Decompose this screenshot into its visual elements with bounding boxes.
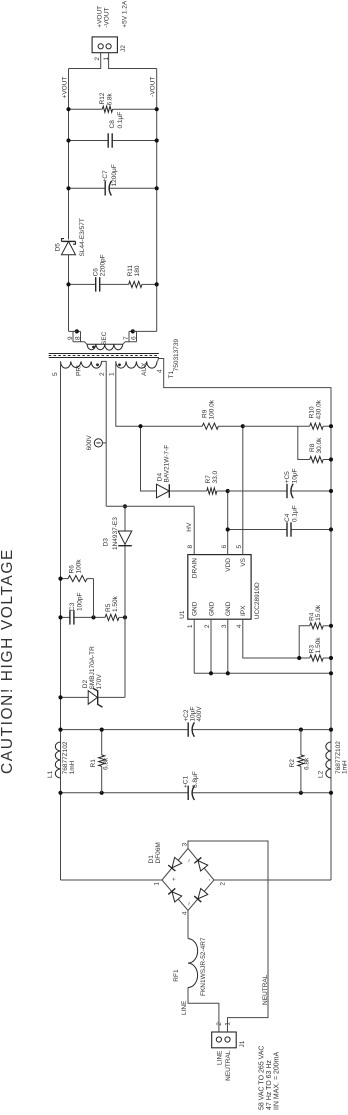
junction dot VS node bbox=[241, 424, 245, 428]
svg-text:LINE: LINE bbox=[216, 1050, 223, 1065]
svg-text:+VOUT: +VOUT bbox=[61, 77, 68, 99]
junction dot aux node bbox=[138, 424, 142, 428]
resistor R6 bbox=[61, 578, 69, 580]
resistor R2 parallel path bbox=[300, 766, 302, 792]
junction dot R10 bottom bbox=[329, 424, 333, 428]
svg-text:400V: 400V bbox=[196, 706, 203, 722]
wire sec 7/6 to -VOUT rail bbox=[133, 330, 157, 332]
connector J2 bbox=[92, 37, 117, 53]
svg-text:-VOUT: -VOUT bbox=[150, 77, 157, 97]
svg-text:L2: L2 bbox=[317, 770, 324, 778]
T1 primary winding bbox=[61, 361, 102, 368]
capacitor C8 bbox=[69, 140, 109, 142]
junction dot R5 bottom bbox=[123, 615, 127, 619]
junction dots GND bbox=[209, 671, 213, 675]
bottom rail to AUX pin4 bbox=[158, 359, 332, 427]
svg-text:~: ~ bbox=[186, 902, 193, 906]
svg-text:5: 5 bbox=[52, 372, 59, 376]
wire GND pin3 bbox=[227, 619, 229, 673]
wire R7 to VDD node bbox=[217, 490, 228, 492]
svg-text:2: 2 bbox=[220, 882, 227, 886]
diode D3 bbox=[118, 531, 132, 544]
svg-text:+C7: +C7 bbox=[102, 170, 109, 182]
svg-text:0.1μF: 0.1μF bbox=[117, 112, 124, 129]
snubber C6 R11 branch bbox=[69, 283, 96, 285]
capacitor C1 bbox=[61, 792, 189, 794]
svg-text:1.50k: 1.50k bbox=[112, 595, 119, 612]
wire drain node vertical bbox=[106, 505, 194, 507]
svg-text:-: - bbox=[206, 879, 213, 881]
svg-text:R9: R9 bbox=[202, 409, 209, 418]
svg-text:100k: 100k bbox=[76, 559, 83, 574]
wire bridge pin1 to top rail bbox=[61, 879, 163, 881]
svg-text:47 Hz TO 63 Hz: 47 Hz TO 63 Hz bbox=[266, 1060, 273, 1110]
junction dots C7 bbox=[66, 186, 70, 190]
junction dot C3/R6 node bbox=[91, 615, 95, 619]
svg-text:R1: R1 bbox=[90, 759, 97, 768]
svg-text:1mH: 1mH bbox=[69, 760, 76, 774]
inductor L1 bbox=[55, 742, 60, 778]
bridge diode bottom-right bbox=[194, 857, 207, 871]
capacitor C4 branch bbox=[228, 529, 287, 531]
wire R8 jog bbox=[298, 426, 310, 459]
svg-text:1: 1 bbox=[187, 624, 194, 628]
svg-text:0.1μF: 0.1μF bbox=[292, 505, 299, 522]
capacitor C5 bbox=[228, 490, 287, 492]
wire VS node down bbox=[243, 425, 310, 427]
svg-text:FKN1WSJR-52-4R7: FKN1WSJR-52-4R7 bbox=[200, 937, 207, 996]
svg-text:R6: R6 bbox=[69, 565, 76, 574]
wire GND pin2 bbox=[210, 619, 212, 673]
junction dots snubber bbox=[66, 282, 70, 286]
capacitor C3 bbox=[61, 616, 70, 618]
resistor R4 bbox=[310, 623, 324, 629]
junction dots R3 R4 bbox=[297, 656, 301, 660]
svg-text:R12: R12 bbox=[99, 92, 106, 104]
wire D4 to R7 bbox=[170, 490, 207, 492]
svg-text:58 VAC TO 265 VAC: 58 VAC TO 265 VAC bbox=[258, 1046, 265, 1110]
resistor R7 bbox=[207, 488, 217, 494]
T1 secondary winding bbox=[87, 343, 123, 345]
svg-text:1: 1 bbox=[108, 372, 115, 376]
svg-text:GND: GND bbox=[225, 601, 232, 616]
svg-text:2200pF: 2200pF bbox=[100, 254, 107, 276]
junction dots C1 bbox=[58, 791, 62, 795]
svg-text:5: 5 bbox=[236, 545, 243, 549]
wire AUX pin1 lead bbox=[116, 361, 141, 426]
svg-text:U1: U1 bbox=[179, 610, 186, 619]
svg-text:3: 3 bbox=[181, 843, 188, 847]
svg-text:180: 180 bbox=[134, 265, 141, 276]
junction dot drain node bbox=[123, 504, 127, 508]
resistor R12 bbox=[69, 108, 103, 110]
svg-text:7: 7 bbox=[123, 336, 130, 340]
svg-text:6.8μF: 6.8μF bbox=[192, 771, 199, 788]
wire VS pin5 bbox=[242, 426, 244, 554]
svg-text:C4: C4 bbox=[284, 513, 291, 522]
bridge D1 diamond bbox=[162, 848, 214, 910]
svg-text:2: 2 bbox=[204, 624, 211, 628]
resistor R1 parallel path bbox=[101, 766, 103, 792]
junction dots C8 bbox=[66, 138, 70, 142]
svg-text:~: ~ bbox=[186, 859, 193, 863]
svg-text:R2: R2 bbox=[289, 759, 296, 768]
resistor R3 bbox=[310, 655, 324, 661]
T1 primary dot bbox=[96, 363, 99, 366]
svg-text:IIN MAX. = 200mA: IIN MAX. = 200mA bbox=[274, 1052, 281, 1110]
T1 core bbox=[49, 357, 159, 359]
svg-text:R7: R7 bbox=[205, 475, 212, 484]
svg-text:+C5: +C5 bbox=[284, 471, 291, 483]
wire J1 pin2 to RF1 bbox=[188, 988, 219, 1033]
svg-text:GND: GND bbox=[208, 601, 215, 616]
capacitor C2 bbox=[61, 729, 189, 731]
svg-text:33.0: 33.0 bbox=[212, 470, 219, 483]
inductor L2 bbox=[326, 742, 331, 778]
svg-text:100.0k: 100.0k bbox=[209, 399, 216, 419]
svg-text:D5: D5 bbox=[54, 243, 61, 252]
junction dots C2 bbox=[58, 728, 62, 732]
600V test point bbox=[94, 439, 102, 447]
junction dot D2 top bbox=[58, 695, 62, 699]
diode D5 schottky bbox=[62, 241, 76, 254]
wire PRI pin2 lead bbox=[102, 361, 107, 506]
svg-text:+C1: +C1 bbox=[183, 776, 190, 788]
svg-text:6.8k: 6.8k bbox=[103, 757, 110, 770]
svg-text:CAUTION! HIGH VOLTAGE: CAUTION! HIGH VOLTAGE bbox=[0, 548, 16, 774]
bridge diode top-right bbox=[168, 857, 181, 871]
svg-text:600V: 600V bbox=[86, 435, 93, 451]
svg-text:R8: R8 bbox=[309, 443, 316, 452]
svg-text:9: 9 bbox=[67, 336, 74, 340]
wire bridge pin2 to bottom rail bbox=[214, 879, 331, 881]
wire +VOUT to J2 pin2 bbox=[69, 53, 101, 69]
svg-text:2: 2 bbox=[99, 372, 106, 376]
svg-text:DRAIN: DRAIN bbox=[192, 558, 199, 579]
top rail (DC+ bus) bbox=[60, 367, 62, 880]
svg-text:BAV21W-7-F: BAV21W-7-F bbox=[163, 445, 170, 483]
svg-text:2: 2 bbox=[94, 57, 101, 61]
junction dot C5 bottom bbox=[329, 489, 333, 493]
svg-text:1200μF: 1200μF bbox=[111, 164, 118, 186]
+VOUT rail bbox=[68, 255, 70, 332]
svg-text:D1: D1 bbox=[148, 855, 155, 864]
wire J1 pin1 NEUTRAL to bridge pin3 bbox=[188, 841, 268, 1032]
wire clamp line bbox=[124, 545, 126, 698]
junction dot sec 7/6 bbox=[131, 329, 135, 333]
svg-text:R11: R11 bbox=[127, 265, 134, 277]
junction dot sec 9/8 bbox=[75, 329, 79, 333]
svg-text:SL44-E3/57T: SL44-E3/57T bbox=[79, 218, 86, 256]
wire VDD pin6 bbox=[227, 491, 229, 555]
svg-text:+: + bbox=[171, 877, 178, 881]
svg-text:1.50k: 1.50k bbox=[315, 637, 322, 654]
svg-text:LINE: LINE bbox=[181, 1000, 188, 1015]
T1 sec pins 9/8 structure bbox=[73, 342, 87, 345]
svg-text:D3: D3 bbox=[102, 538, 109, 547]
svg-text:-VOUT: -VOUT bbox=[103, 7, 110, 27]
svg-text:100pF: 100pF bbox=[76, 593, 83, 611]
svg-text:1N4937-E3: 1N4937-E3 bbox=[112, 517, 119, 550]
svg-text:1mH: 1mH bbox=[342, 760, 348, 774]
wire -VOUT to J2 pin1 bbox=[109, 53, 157, 69]
bridge diode top-left bbox=[168, 888, 181, 902]
svg-text:SMBJ170A-TR: SMBJ170A-TR bbox=[89, 646, 96, 690]
svg-text:C3: C3 bbox=[69, 602, 76, 611]
svg-text:R10: R10 bbox=[308, 406, 315, 418]
svg-text:8: 8 bbox=[187, 545, 194, 549]
svg-text:GND: GND bbox=[192, 601, 199, 616]
resistor R10 bbox=[310, 423, 324, 429]
wire sec 9/8 to +VOUT rail bbox=[69, 330, 77, 332]
svg-text:RF1: RF1 bbox=[173, 969, 180, 982]
svg-text:1: 1 bbox=[154, 882, 161, 886]
T1 secondary dot bbox=[92, 346, 95, 349]
svg-text:170V: 170V bbox=[96, 674, 103, 690]
svg-text:6.8k: 6.8k bbox=[303, 757, 310, 770]
resistor R8 bbox=[310, 456, 324, 462]
svg-text:NEUTRAL: NEUTRAL bbox=[262, 974, 269, 1005]
svg-text:AUX: AUX bbox=[141, 362, 148, 376]
-VOUT rail bbox=[156, 69, 158, 332]
wire PRI pin5 link bbox=[60, 361, 62, 367]
svg-text:3: 3 bbox=[221, 624, 228, 628]
svg-text:C8: C8 bbox=[109, 120, 116, 129]
svg-text:1: 1 bbox=[103, 57, 110, 61]
svg-text:6: 6 bbox=[131, 336, 138, 340]
svg-text:4: 4 bbox=[236, 624, 243, 628]
svg-text:10μF: 10μF bbox=[292, 468, 299, 483]
wire GND collector bbox=[194, 672, 331, 674]
junction dot R8 bottom bbox=[329, 457, 333, 461]
wire DRAIN pin8 bbox=[193, 506, 195, 554]
svg-text:750313739: 750313739 bbox=[173, 338, 180, 371]
wire R9 to VS node bbox=[218, 425, 242, 427]
svg-text:VDD: VDD bbox=[225, 558, 232, 572]
svg-text:PRI: PRI bbox=[76, 365, 83, 376]
svg-text:4: 4 bbox=[181, 911, 188, 915]
junction dot R6 top bbox=[58, 576, 62, 580]
svg-text:VS: VS bbox=[240, 557, 247, 566]
svg-text:SEC: SEC bbox=[101, 331, 108, 345]
svg-text:R5: R5 bbox=[105, 603, 112, 612]
svg-text:6: 6 bbox=[221, 545, 228, 549]
junction dot VDD node bbox=[226, 489, 230, 493]
wire aux to D4 bbox=[141, 426, 157, 491]
wire aux node to R9 bbox=[141, 425, 203, 427]
capacitor C7 bbox=[69, 187, 106, 189]
wire IPX pin4 bbox=[243, 619, 299, 658]
svg-text:C6: C6 bbox=[92, 268, 99, 277]
T1 aux dot bbox=[118, 363, 121, 366]
diode D4 bbox=[157, 484, 170, 498]
T1 aux winding bbox=[116, 361, 157, 368]
bottom rail (primary GND bus) bbox=[330, 426, 332, 880]
junction dots C4 bbox=[226, 527, 230, 531]
svg-text:NEUTRAL: NEUTRAL bbox=[225, 1050, 232, 1081]
svg-text:430.0k: 430.0k bbox=[316, 399, 323, 419]
svg-text:30.0k: 30.0k bbox=[316, 437, 323, 454]
wire R4 jog bbox=[299, 626, 310, 658]
svg-text:6.8k: 6.8k bbox=[107, 92, 114, 105]
svg-text:IPX: IPX bbox=[240, 605, 247, 616]
tvs diode D2 bbox=[61, 696, 89, 698]
svg-text:15.0k: 15.0k bbox=[315, 604, 322, 621]
svg-text:D2: D2 bbox=[82, 680, 89, 689]
svg-text:+5V 1.2A: +5V 1.2A bbox=[122, 0, 129, 28]
resistor R9 bbox=[202, 423, 218, 429]
bridge diode bottom-left bbox=[194, 888, 207, 902]
svg-text:J1: J1 bbox=[239, 1040, 246, 1047]
junction dot C3 top bbox=[58, 615, 62, 619]
op-amp U1 UCC28910D box bbox=[188, 555, 251, 620]
connector J1 bbox=[212, 1032, 237, 1048]
wire RF1 to bridge pin4 bbox=[187, 911, 189, 939]
resistor R5 bbox=[105, 614, 119, 620]
svg-text:DF06M: DF06M bbox=[155, 842, 162, 863]
svg-text:UCC28910D: UCC28910D bbox=[254, 582, 261, 619]
svg-text:HV: HV bbox=[186, 522, 193, 532]
svg-text:J2: J2 bbox=[120, 45, 127, 52]
svg-text:4: 4 bbox=[156, 369, 163, 373]
svg-text:8: 8 bbox=[75, 336, 82, 340]
junction dots R12 bbox=[66, 107, 70, 111]
T1 sec pins 7/6 structure bbox=[123, 342, 137, 345]
wire GND pin1 bbox=[193, 619, 195, 673]
wire R6 to C3/R5 node bbox=[93, 579, 95, 618]
svg-text:L1: L1 bbox=[47, 770, 54, 778]
fusible resistor RF1 bbox=[188, 939, 198, 988]
